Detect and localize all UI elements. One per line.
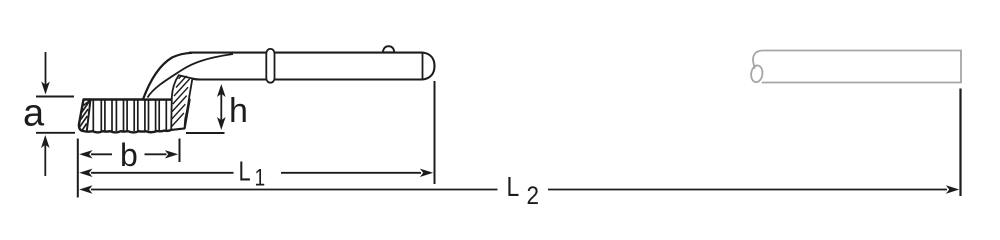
right extension line for b [179, 139, 181, 163]
dimension a: down arrow [41, 52, 50, 95]
gray continued handle (phantom) top and left with curl [750, 51, 961, 83]
neck inner tangent line [148, 54, 234, 98]
svg-text:2: 2 [527, 182, 540, 210]
dimension a: up arrow [41, 135, 50, 176]
wrench head outline [79, 100, 190, 133]
gray bottom line [763, 82, 962, 84]
head serration lines [93, 100, 166, 131]
left extension line for b, L1, L2 [77, 139, 79, 198]
svg-text:a: a [23, 93, 45, 135]
handle top line [189, 52, 423, 54]
handle rounded end cap [423, 53, 435, 80]
right extension line for L1 [434, 81, 436, 184]
neck outer curve [143, 53, 192, 100]
svg-text:1: 1 [255, 163, 266, 191]
dimension h: double arrow [217, 84, 226, 130]
small bump on handle top [383, 46, 395, 52]
dimension L2 line with arrows [79, 185, 959, 193]
svg-text:h: h [229, 92, 248, 130]
svg-text:b: b [120, 137, 138, 173]
handle bottom line with curve into neck [192, 79, 422, 80]
dimension a: upper extension line [36, 96, 74, 98]
handle end cap chord line [422, 53, 424, 80]
right extension line for L2 [959, 89, 961, 197]
svg-text:L: L [507, 172, 520, 203]
neck white face (covers area above head between curves) [143, 53, 200, 100]
dimension h: bottom extension line [186, 132, 225, 134]
dimension L1 line with arrows [79, 169, 433, 177]
dimension b line with arrows [79, 150, 178, 158]
head left hatched section [79, 100, 90, 132]
head top edge under neck [143, 98, 172, 100]
gray right edge [960, 51, 962, 83]
handle collar ring [266, 49, 274, 83]
gray curl loop [750, 65, 763, 83]
svg-text:L: L [239, 156, 251, 187]
neck right hatched section (ring wall) [171, 75, 192, 130]
dimension a: lower extension line [36, 132, 75, 134]
